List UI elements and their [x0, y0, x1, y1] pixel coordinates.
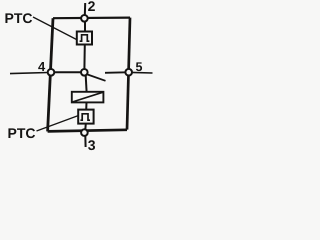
svg-text:PTC: PTC [5, 10, 33, 26]
start relay coil (rectangle) [72, 92, 104, 103]
wire: left edge of enclosure [48, 18, 53, 131]
svg-text:5: 5 [136, 60, 143, 74]
svg-text:4: 4 [38, 59, 46, 74]
wire: fixed contact to terminal 5 [105, 71, 126, 74]
leader line from label PTC (top) to PTC1 [33, 17, 77, 40]
wire: stub below terminal 3 [84, 136, 86, 148]
PTC thermistor PTC2 (box) [78, 110, 93, 124]
wire: top edge of enclosure [53, 17, 130, 20]
PTC1 pulse symbol [80, 35, 90, 41]
PTC thermistor PTC1 (box) [77, 32, 92, 45]
terminal 5 (open circle) [125, 69, 132, 76]
wire: PTC1 down to switch pivot [83, 44, 85, 70]
wire: terminal 2 down to PTC1 [84, 21, 86, 33]
wire: bottom edge of enclosure [48, 130, 127, 132]
svg-text:3: 3 [88, 137, 96, 152]
wire: PTC2 down to bottom edge [84, 124, 87, 132]
wire: switch pivot down to relay coil [85, 76, 88, 93]
terminal 3 (open circle) [81, 129, 88, 136]
wire: stub above terminal 2 [84, 3, 86, 16]
relay coil diagonal [72, 92, 103, 102]
wire: relay coil down to PTC2 [85, 102, 87, 110]
wire: external lead right of terminal 5 [132, 71, 153, 74]
PTC2 pulse symbol [80, 114, 90, 120]
wire: external lead at node 4 [10, 73, 48, 74]
svg-text:2: 2 [88, 0, 96, 14]
node 4 terminal (open circle) [48, 69, 55, 76]
wire: right edge of enclosure [127, 18, 130, 130]
terminal 2 (open circle) [81, 15, 88, 22]
leader line from label PTC (bottom) to PTC2 [37, 116, 79, 132]
switch blade (movable contact) [87, 74, 105, 80]
svg-text:PTC: PTC [8, 125, 36, 141]
wire: node 4 to switch pivot [54, 71, 81, 73]
switch pivot junction (open circle) [81, 69, 88, 76]
